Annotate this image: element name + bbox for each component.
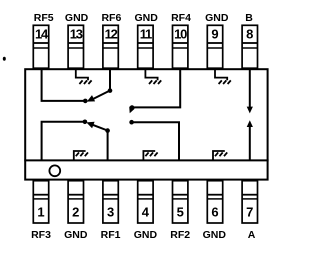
- svg-text:5: 5: [177, 205, 184, 220]
- svg-text:13: 13: [70, 26, 83, 41]
- svg-text:4: 4: [142, 205, 150, 220]
- svg-text:10: 10: [174, 26, 187, 41]
- svg-text:GND: GND: [134, 229, 158, 241]
- svg-text:GND: GND: [135, 12, 159, 24]
- svg-text:1: 1: [37, 205, 44, 220]
- svg-text:RF1: RF1: [101, 229, 121, 241]
- svg-text:RF2: RF2: [170, 229, 190, 241]
- svg-text:2: 2: [72, 205, 79, 220]
- svg-text:RF5: RF5: [34, 12, 54, 24]
- svg-text:11: 11: [140, 26, 152, 41]
- svg-text:RF6: RF6: [101, 12, 121, 24]
- svg-text:GND: GND: [65, 12, 89, 24]
- svg-text:6: 6: [211, 205, 218, 220]
- svg-text:A: A: [248, 229, 256, 241]
- svg-text:9: 9: [211, 26, 218, 41]
- svg-text:GND: GND: [203, 229, 227, 241]
- svg-text:RF3: RF3: [31, 229, 51, 241]
- svg-text:12: 12: [105, 26, 118, 41]
- svg-text:7: 7: [246, 205, 253, 220]
- svg-text:3: 3: [107, 205, 114, 220]
- svg-text:GND: GND: [64, 229, 88, 241]
- svg-text:B: B: [245, 12, 253, 24]
- svg-text:GND: GND: [205, 12, 229, 24]
- svg-text:RF4: RF4: [171, 12, 191, 24]
- svg-text:8: 8: [246, 26, 253, 41]
- svg-text:14: 14: [35, 26, 49, 41]
